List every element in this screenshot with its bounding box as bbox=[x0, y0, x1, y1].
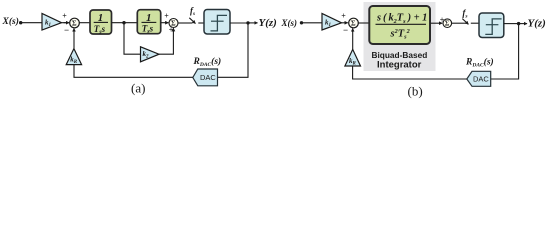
node output junction b bbox=[517, 22, 520, 25]
summing junction S2 b bbox=[443, 19, 452, 28]
wire kR to sum1 bbox=[73, 30, 75, 49]
node output junction bbox=[246, 21, 249, 24]
wire input to k1 bbox=[21, 22, 42, 24]
svg-text:X(s): X(s) bbox=[2, 16, 19, 27]
svg-text:X(s): X(s) bbox=[281, 18, 298, 28]
amplifier kR feedback b bbox=[345, 49, 361, 66]
svg-text:DAC: DAC bbox=[473, 75, 489, 84]
wire input to k1 b bbox=[302, 22, 323, 24]
feedback wire down from output bbox=[218, 23, 249, 77]
biquad integrator block bbox=[369, 6, 430, 44]
gray panel biquad bbox=[364, 2, 436, 71]
svg-text:DAC: DAC bbox=[200, 73, 216, 82]
wire integrator1 to integrator2 bbox=[112, 22, 138, 24]
quantizer block bbox=[204, 10, 230, 35]
feedback wire down from output b bbox=[491, 24, 519, 79]
node junction between integrators bbox=[122, 21, 125, 24]
feedforward tap wire down bbox=[124, 23, 141, 55]
DAC block bbox=[193, 69, 218, 86]
wire quantizer to output bbox=[230, 22, 248, 24]
svg-text:Integrator: Integrator bbox=[377, 60, 422, 71]
svg-text:Σ: Σ bbox=[445, 20, 450, 28]
summing junction S1 b bbox=[341, 12, 358, 35]
summing junction S2 bbox=[164, 11, 178, 34]
node input dot b bbox=[300, 21, 303, 24]
wire arrow to Y(z) bbox=[248, 22, 258, 24]
wire sum1 to integrator1 bbox=[79, 22, 90, 24]
summing junction S1 bbox=[62, 12, 79, 35]
svg-text:+: + bbox=[62, 12, 67, 21]
wire sum2 to sampler b bbox=[452, 22, 466, 24]
svg-text:Biquad-Based: Biquad-Based bbox=[372, 50, 428, 60]
feedback wire DAC to kR b bbox=[353, 66, 467, 79]
feedback wire DAC to kR bbox=[74, 65, 193, 78]
wire k1 to sum1 b bbox=[342, 22, 348, 24]
svg-text:+: + bbox=[164, 11, 169, 20]
node input dot bbox=[19, 21, 22, 24]
svg-text:(a): (a) bbox=[131, 81, 145, 96]
sampler switch fs bbox=[189, 18, 195, 24]
sampler switch fs b bbox=[462, 19, 468, 25]
wire sum1 to biquad block bbox=[358, 22, 369, 24]
wire integrator2 to sum2 bbox=[161, 22, 169, 24]
svg-text:+: + bbox=[341, 12, 346, 21]
amplifier k1 b bbox=[322, 14, 342, 31]
wire sampler to quantizer bbox=[198, 22, 204, 24]
wire sampler to quantizer b bbox=[471, 22, 479, 24]
amplifier k2 feedforward bbox=[141, 47, 160, 62]
wire arrow to Y(z) b bbox=[519, 23, 527, 25]
integrator block 1/(Ts s) first bbox=[90, 10, 112, 35]
wire biquad to sum2 b bbox=[431, 22, 443, 24]
quantizer block b bbox=[479, 13, 504, 38]
svg-text:s ( k2Ts ) + 1: s ( k2Ts ) + 1 bbox=[376, 13, 427, 25]
integrator block 1/(Ts s) second bbox=[137, 10, 160, 36]
svg-text:Y(z): Y(z) bbox=[259, 17, 277, 29]
svg-text:(b): (b) bbox=[408, 83, 423, 98]
wire k1 to sum1 bbox=[62, 22, 67, 24]
wire k2 to sum2 bbox=[159, 31, 173, 55]
svg-text:Σ: Σ bbox=[72, 20, 77, 28]
wire sum2 to sampler bbox=[178, 22, 193, 24]
amplifier kR feedback bbox=[66, 49, 81, 66]
svg-text:−: − bbox=[64, 25, 69, 35]
DAC block b bbox=[467, 71, 491, 86]
svg-text:Y(z): Y(z) bbox=[528, 18, 546, 30]
wire quantizer to output b bbox=[504, 23, 519, 25]
svg-text:Σ: Σ bbox=[351, 20, 356, 28]
wire kR to sum1 b bbox=[352, 30, 354, 50]
amplifier k1 bbox=[42, 14, 62, 31]
svg-text:−: − bbox=[343, 25, 348, 35]
